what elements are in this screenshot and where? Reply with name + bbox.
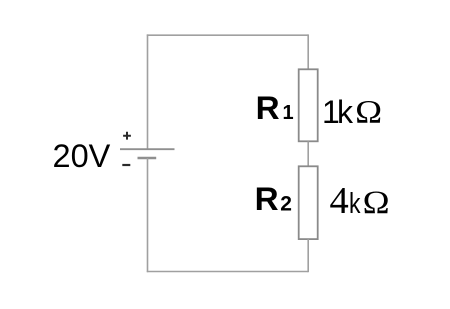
wire right upper (top to R1) — [307, 34, 309, 69]
wire bottom — [147, 271, 308, 273]
wire between R1 and R2 — [307, 141, 309, 166]
svg-text:4: 4 — [330, 180, 349, 222]
resistor R2 box — [299, 166, 318, 239]
svg-text:k: k — [349, 188, 361, 220]
plus sign — [123, 132, 131, 140]
label R1 — [256, 90, 294, 126]
svg-text:2: 2 — [280, 192, 292, 215]
svg-text:1: 1 — [283, 102, 294, 124]
label R2 — [255, 181, 292, 217]
svg-text:20V: 20V — [53, 138, 111, 174]
svg-text:k: k — [337, 94, 354, 130]
wire right lower (R2 to bottom) — [307, 239, 309, 272]
value label 4kOhm — [330, 180, 390, 222]
wire left lower (battery to bottom) — [147, 158, 149, 272]
battery plate long (+) — [120, 148, 175, 150]
wire left upper (to battery + plate) — [147, 34, 149, 149]
wire top — [147, 34, 308, 36]
svg-text:Ω: Ω — [363, 185, 390, 221]
svg-text:Ω: Ω — [355, 94, 382, 130]
label 20V — [53, 138, 111, 174]
svg-text:R: R — [255, 181, 279, 217]
battery V1 20V — [120, 132, 175, 165]
svg-text:R: R — [256, 90, 280, 126]
resistor R1 box — [299, 69, 318, 141]
minus sign — [122, 164, 130, 166]
battery plate short (-) — [138, 157, 157, 159]
value label 1kOhm — [322, 94, 382, 131]
